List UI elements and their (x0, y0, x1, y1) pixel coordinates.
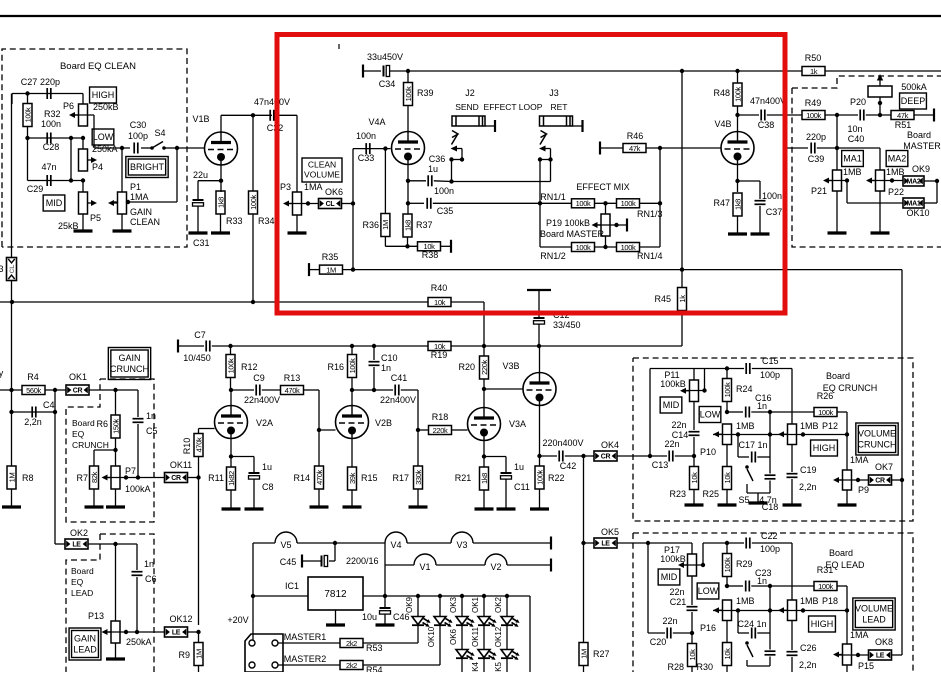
svg-text:100k: 100k (576, 243, 591, 252)
svg-text:1MA: 1MA (130, 192, 149, 202)
resistor R33 (216, 191, 225, 214)
wire OK5 row (584, 542, 595, 544)
svg-text:C8: C8 (262, 482, 274, 492)
capacitor C30 (134, 143, 138, 154)
wire RN row2 (540, 246, 572, 248)
svg-text:OK4: OK4 (471, 661, 480, 672)
node C10 top (372, 344, 376, 348)
capacitor C17 1n (737, 435, 739, 458)
svg-text:C20: C20 (650, 637, 667, 647)
svg-text:7812: 7812 (324, 589, 347, 600)
svg-text:1u: 1u (262, 462, 272, 472)
svg-text:LEAD: LEAD (71, 588, 93, 598)
svg-text:10k: 10k (690, 472, 699, 484)
svg-text:EFFECT MIX: EFFECT MIX (576, 182, 629, 192)
node C20 riser (646, 541, 650, 545)
triode V4B (721, 132, 754, 165)
svg-text:1k: 1k (678, 295, 687, 303)
resistor R19 inline (428, 342, 451, 351)
svg-text:2k2: 2k2 (346, 639, 357, 648)
svg-text:100k: 100k (226, 358, 235, 373)
node R24 top (725, 366, 729, 370)
wire P10 column lower (726, 445, 728, 468)
potentiometer P18 HIGH lead (788, 600, 797, 621)
svg-text:OK11: OK11 (170, 460, 192, 470)
node x12 R4 (9, 388, 13, 392)
svg-text:MASTER1: MASTER1 (284, 632, 327, 642)
potentiometer P12 HIGH crunch (788, 424, 797, 445)
svg-text:2,2n: 2,2n (24, 417, 42, 427)
svg-text:R9: R9 (178, 650, 190, 660)
svg-text:P16: P16 (700, 623, 716, 633)
capacitor C28 (47, 133, 51, 144)
resistor R13 (281, 386, 304, 395)
svg-text:C39: C39 (808, 154, 825, 164)
potentiometer P15 (846, 611, 848, 645)
wire C16 row (727, 411, 743, 413)
svg-text:MA1: MA1 (843, 154, 862, 164)
svg-text:1MB: 1MB (736, 596, 755, 606)
node P13 column (113, 542, 117, 546)
capacitor C46 10u electrolytic (384, 596, 386, 607)
opto LED OK6 led (456, 650, 475, 660)
resistor R37 (403, 214, 412, 237)
node R39 top (406, 69, 410, 73)
wire OK1 out (89, 389, 138, 391)
ground IC1 (335, 610, 337, 625)
svg-text:R16: R16 (327, 362, 344, 372)
svg-text:C30: C30 (130, 120, 147, 130)
wire OK11 out (188, 477, 199, 479)
svg-text:V4B: V4B (714, 119, 731, 129)
svg-text:33u450V: 33u450V (367, 52, 403, 62)
node R34 bus (251, 300, 255, 304)
node C23 out (768, 584, 772, 588)
svg-text:R19: R19 (431, 350, 448, 360)
svg-text:R34: R34 (258, 216, 275, 226)
wire P6 wiper to C30 (93, 115, 95, 148)
wire P15 wiper (839, 654, 869, 656)
svg-text:100k: 100k (733, 87, 742, 102)
svg-text:100kB: 100kB (660, 554, 686, 564)
capacitor C42 220n400V (540, 455, 558, 457)
wire OK12 column (198, 478, 200, 626)
svg-text:100kB: 100kB (660, 379, 686, 389)
label MA2 box (886, 151, 908, 167)
heater V1 (414, 554, 436, 565)
svg-text:1M: 1M (579, 649, 588, 659)
wire to P21 (836, 115, 838, 170)
node C36 out (449, 179, 453, 183)
potentiometer P5 MID (82, 181, 84, 193)
capacitor C8 1u electrolytic (249, 473, 260, 479)
svg-text:R21: R21 (455, 473, 472, 483)
tick mark (338, 44, 340, 49)
svg-text:y: y (0, 368, 4, 378)
potentiometer P1 GAIN CLEAN (118, 192, 127, 214)
svg-text:100n: 100n (762, 191, 782, 201)
resistor R6 (111, 415, 120, 438)
capacitor C16 1n (746, 407, 750, 418)
resistor R47 (733, 193, 742, 216)
resistor R7 (90, 466, 99, 489)
wire C35 row 100n (408, 202, 424, 204)
optocoupler OK8 (869, 650, 892, 660)
resistor R8 (7, 466, 16, 489)
wire V1B cathode (220, 165, 222, 192)
wire OK5 column (583, 456, 585, 643)
potentiometer P3 volume (293, 192, 302, 215)
resistor R22 (535, 466, 544, 489)
wire C32 to P3 (276, 114, 297, 116)
resistor R35 (320, 265, 343, 274)
svg-text:1MB: 1MB (736, 421, 755, 431)
svg-text:470k: 470k (315, 470, 324, 485)
node x12 bus (10, 300, 14, 304)
svg-text:LE: LE (172, 630, 181, 637)
node C45 tap (333, 541, 337, 545)
wire V2B cathode (351, 439, 353, 468)
node P6 bottom (81, 136, 85, 140)
node top rail x682 (680, 69, 684, 73)
node V3B cathode R22 (537, 454, 541, 458)
wire C4 row (12, 411, 56, 413)
svg-text:C45: C45 (280, 557, 297, 567)
svg-text:250kA: 250kA (126, 637, 152, 647)
node RN row1 mid (603, 201, 607, 205)
svg-text:LOW: LOW (700, 410, 721, 420)
opto LED OK12 led (501, 650, 520, 660)
wire S4 to V1B grid (177, 147, 205, 149)
svg-text:R13: R13 (284, 373, 301, 383)
wire OK8 to main line (892, 654, 903, 656)
svg-text:1M: 1M (381, 220, 390, 230)
ground P22 (879, 191, 881, 233)
wire J2 contact down (451, 160, 453, 182)
capacitor C41 22n400V (395, 385, 399, 396)
svg-text:MA2: MA2 (907, 179, 921, 186)
wire V2A plate (230, 390, 232, 406)
regulator IC1 7812 (308, 577, 363, 610)
resistor R17 (417, 430, 419, 466)
svg-text:R37: R37 (416, 220, 433, 230)
ground P21 (836, 191, 838, 233)
wire RN right column (659, 148, 661, 247)
switch S4 (141, 147, 152, 149)
potentiometer P7 (115, 450, 117, 466)
wire P9 wiper (839, 479, 869, 481)
wire P7 wiper row (108, 477, 165, 479)
svg-text:R36: R36 (362, 220, 379, 230)
capacitor C12 rail (538, 290, 540, 317)
svg-text:V3B: V3B (502, 361, 519, 371)
svg-text:P10: P10 (700, 447, 716, 457)
svg-text:100n: 100n (434, 186, 454, 196)
svg-text:C26: C26 (800, 643, 817, 653)
wire plate rail to V4B (408, 70, 941, 72)
svg-text:10k: 10k (723, 472, 732, 484)
node R12 top (228, 344, 232, 348)
node grid R36 tap (383, 146, 387, 150)
svg-text:C11: C11 (514, 482, 530, 492)
capacitor C4 2,2n (32, 407, 36, 418)
capacitor C23 1n (746, 581, 750, 592)
wire V1B plate to C32 row (220, 115, 222, 132)
svg-text:100k: 100k (723, 557, 732, 572)
capacitor C34 electrolytic 33u450V (384, 66, 390, 77)
wire FX send bus (452, 181, 551, 183)
svg-text:1n: 1n (381, 363, 391, 373)
node R48 C38 junction (735, 113, 739, 117)
svg-text:Board: Board (826, 371, 850, 381)
svg-text:CR: CR (875, 478, 885, 485)
svg-text:C18: C18 (762, 502, 779, 512)
node V2B plate row (350, 388, 354, 392)
svg-text:MID: MID (46, 198, 63, 208)
svg-text:R20: R20 (458, 362, 475, 372)
svg-text:1MA: 1MA (304, 182, 323, 192)
node C16 out (768, 410, 772, 414)
resistor R31 (814, 582, 837, 591)
wire C39 row (783, 147, 808, 149)
resistor R36 grid leak (384, 149, 386, 214)
resistor R49 (802, 111, 825, 120)
resistor R39 (404, 83, 413, 106)
svg-text:V1: V1 (419, 562, 430, 572)
resistor R53 (340, 639, 363, 648)
svg-text:220n400V: 220n400V (542, 438, 583, 448)
node R10 bottom (196, 475, 200, 479)
resistor R4 (22, 386, 45, 395)
wire P3 wiper to OK6 (289, 203, 318, 205)
svg-text:R31: R31 (817, 565, 834, 575)
svg-text:250kA: 250kA (92, 144, 118, 154)
svg-text:R15: R15 (361, 473, 378, 483)
svg-text:LE: LE (72, 542, 81, 549)
wire V3A plate to V3B grid (483, 389, 485, 408)
wire C15 corner down to P12 (791, 369, 793, 425)
svg-text:330k: 330k (414, 470, 423, 485)
svg-text:OK2: OK2 (70, 528, 88, 538)
Board EQ LEAD left dashed box (100, 534, 154, 672)
svg-text:OK10: OK10 (906, 208, 929, 218)
wire RN row1 (540, 202, 572, 204)
label HIGH box lead (809, 616, 836, 632)
label VOLUME CRUNCH box (856, 423, 898, 455)
node C27 row R32 (25, 91, 29, 95)
node C35 row (406, 201, 410, 205)
wire V3B grid (484, 388, 523, 390)
svg-text:J3: J3 (549, 88, 559, 98)
svg-text:100k: 100k (576, 199, 591, 208)
opto LED OK10 (439, 596, 441, 617)
capacitor C20 22n (648, 632, 665, 634)
svg-text:1MA: 1MA (850, 455, 869, 465)
svg-text:C34: C34 (379, 79, 396, 89)
wire P1 top (121, 148, 123, 192)
resistor R50 (802, 67, 825, 76)
wire V2A cathode (230, 439, 232, 468)
svg-text:100p: 100p (760, 370, 780, 380)
switch S5 (745, 465, 749, 469)
svg-text:OK6: OK6 (449, 628, 458, 645)
capacitor C7 10/450 (206, 341, 210, 352)
node C46 (383, 594, 387, 598)
svg-text:1M: 1M (194, 649, 203, 659)
svg-text:100k: 100k (404, 86, 413, 101)
svg-text:100k: 100k (818, 582, 833, 591)
svg-text:V2A: V2A (256, 418, 273, 428)
svg-text:100p: 100p (760, 544, 780, 554)
svg-text:VOLUME: VOLUME (858, 429, 896, 439)
svg-text:47k: 47k (897, 111, 909, 120)
svg-text:J2: J2 (465, 88, 475, 98)
wire MA outputs join (924, 180, 937, 182)
svg-text:100k: 100k (806, 111, 821, 120)
svg-text:LOW: LOW (698, 586, 719, 596)
wire P11 wiper riser (683, 390, 705, 392)
svg-text:10k: 10k (688, 649, 697, 661)
svg-text:P4: P4 (92, 162, 103, 172)
node C42 out (581, 454, 585, 458)
potentiometer P9 (846, 435, 848, 471)
svg-text:1MB: 1MB (800, 596, 819, 606)
node LED col4 (482, 594, 486, 598)
wire OK5 out (617, 542, 692, 544)
svg-text:100k: 100k (249, 195, 258, 210)
wire C23 row (727, 585, 743, 587)
node C30 row (120, 146, 124, 150)
node R49 out (835, 113, 839, 117)
svg-text:C15: C15 (762, 356, 779, 366)
svg-text:Board: Board (72, 418, 95, 428)
resistor R54 (340, 661, 363, 670)
triode V3B (523, 373, 556, 406)
wire P16 column lower (726, 621, 728, 644)
svg-text:220p: 220p (40, 77, 60, 87)
potentiometer P19 effect mix (601, 214, 610, 236)
node R29 bottom (725, 584, 729, 588)
svg-text:C31: C31 (193, 238, 210, 248)
ground P13 (115, 643, 117, 659)
label MID box lead (658, 569, 680, 585)
svg-text:R45: R45 (654, 294, 671, 304)
node C36 row (406, 179, 410, 183)
svg-text:R50: R50 (805, 53, 822, 63)
opto LED OK2 led (506, 596, 508, 617)
resistor RN1/4 (617, 243, 640, 252)
svg-text:P22: P22 (888, 187, 904, 197)
label LOW box crunch (699, 407, 721, 423)
label HIGH box (90, 87, 117, 103)
svg-text:C27: C27 (21, 77, 38, 87)
svg-text:MA1: MA1 (907, 201, 921, 208)
svg-text:2k2: 2k2 (346, 661, 357, 670)
resistor RN1/2 (572, 243, 595, 252)
switch S6 (745, 641, 749, 645)
node C35 J3 column (538, 201, 542, 205)
svg-text:C33: C33 (358, 153, 375, 163)
svg-text:MASTER2: MASTER2 (284, 654, 327, 664)
ground P5 (82, 214, 84, 231)
wire OK2 out (88, 543, 137, 545)
wire OK4 out (617, 455, 650, 457)
node x682 on row (680, 267, 684, 271)
opto LED OK3 led (461, 596, 463, 617)
svg-text:OK12: OK12 (494, 626, 503, 647)
svg-text:22n: 22n (669, 587, 684, 597)
wire P19 wiper stub (597, 224, 627, 226)
node bus corner (482, 344, 486, 348)
svg-text:R38: R38 (422, 250, 439, 260)
svg-text:100k: 100k (621, 199, 636, 208)
triode V2B (336, 406, 369, 439)
svg-text:220k: 220k (433, 426, 448, 435)
svg-text:R28: R28 (667, 662, 684, 672)
svg-text:R22: R22 (548, 473, 565, 483)
node R32 bottom (25, 136, 29, 140)
svg-text:OK8: OK8 (875, 637, 893, 647)
node C13 C14 R23 (692, 454, 696, 458)
wire grid to V2B (319, 429, 336, 431)
wire V4B cathode (737, 165, 739, 193)
node cathode branch (735, 179, 739, 183)
svg-text:R7: R7 (76, 473, 88, 483)
wire V3A cathode (483, 441, 485, 468)
resistor R27 (579, 643, 588, 666)
label CLEAN VOLUME box (302, 158, 342, 182)
svg-text:LOW: LOW (93, 132, 114, 142)
svg-text:R26: R26 (817, 391, 834, 401)
svg-text:150k: 150k (111, 419, 120, 434)
svg-text:100k: 100k (348, 358, 357, 373)
node V2A plate (229, 388, 233, 392)
svg-text:R29: R29 (736, 559, 753, 569)
svg-text:MID: MID (661, 572, 678, 582)
node C4 left (9, 410, 13, 414)
label MID box (43, 195, 65, 211)
wire C29 row (28, 180, 84, 182)
potentiometer P13 GAIN LEAD (111, 621, 120, 643)
svg-text:2,2n: 2,2n (799, 482, 817, 492)
optocoupler OK10 MA1 (903, 198, 924, 208)
svg-text:C13: C13 (652, 460, 669, 470)
triode V3A (468, 408, 501, 441)
svg-text:100p: 100p (128, 131, 148, 141)
svg-text:100k: 100k (621, 243, 636, 252)
node cathode branch (229, 454, 233, 458)
wire down to OK2 (54, 412, 56, 544)
wire riser heater row2 (384, 565, 386, 596)
wire V4A cathode column (407, 165, 409, 215)
node R48 top (735, 69, 739, 73)
potentiometer P4 LOW (82, 138, 84, 149)
node R9 top (196, 630, 200, 634)
optocoupler OK3 vertical (7, 258, 17, 281)
svg-text:+20V: +20V (227, 615, 248, 625)
resistor R28 (688, 644, 697, 667)
optocoupler OK5 (594, 538, 617, 548)
wire OK6 to node (342, 203, 354, 205)
heater V2 (485, 554, 507, 565)
svg-text:C7: C7 (194, 330, 206, 340)
svg-text:C5: C5 (146, 426, 158, 436)
capacitor C27 (47, 88, 51, 99)
svg-text:S4: S4 (154, 128, 165, 138)
wire heater row1 (253, 542, 275, 544)
svg-text:R48: R48 (713, 88, 730, 98)
optocoupler OK4 (594, 451, 617, 461)
